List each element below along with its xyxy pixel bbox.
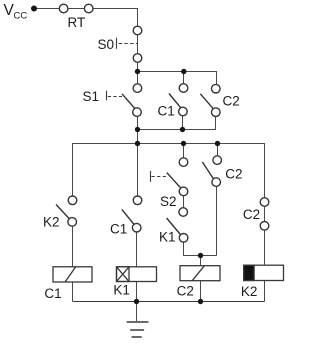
contact C2 mid [213,156,222,165]
contact K2 [68,196,77,205]
ground [127,322,149,337]
contact C1 mid [133,196,142,205]
node D1 junction [135,141,140,146]
wire S2 top stub [183,144,185,158]
node C junction [135,127,140,132]
wire C2 coil to bottom bus [200,281,202,302]
svg-text:C1: C1 [110,222,127,237]
svg-text:C2: C2 [223,93,240,108]
contact RT terminals [59,4,68,13]
node F junction [134,299,139,304]
svg-text:S0: S0 [98,37,115,52]
node B junction [135,69,140,74]
wire ground stub [136,302,138,322]
relay coil C1 [53,267,92,282]
wire C1 bottom stub [182,116,184,130]
node G junction [198,299,203,304]
svg-text:CC: CC [14,11,28,22]
wire S2-K1 link [183,196,185,208]
wire S1 bottom stub [137,116,139,143]
pushbutton S0 terminals [133,26,142,35]
svg-text:C1: C1 [158,104,175,119]
node E junction [198,253,203,258]
node C2j junction [180,127,185,132]
wire bus node C (y=129) [138,116,216,129]
svg-text:K1: K1 [113,283,130,298]
wire S1 top stub [137,72,139,85]
pushbutton S0 actuator [117,38,138,49]
wire C1 top stub [183,72,185,85]
relay coil K2 [244,265,284,280]
wire bus node D (y=143) [73,144,265,198]
svg-text:S2: S2 [160,194,177,209]
wire K1 coil to bottom bus [136,282,138,302]
wire K2 switch to C1 coil [72,226,74,267]
wire C1 switch top stub [137,144,139,197]
svg-text:C2: C2 [243,207,260,222]
svg-text:K2: K2 [43,215,60,230]
pushbutton S2 [179,158,188,167]
wire C2 right to K2 coil [264,230,266,265]
svg-text:K1: K1 [159,230,176,245]
switch S1 actuator [107,91,123,101]
wire bottom bus [73,301,265,303]
wire K2 coil to bottom bus [264,281,266,302]
wire Vcc top rail [36,9,138,27]
relay coil C2 [180,266,220,281]
relay coil K1 [117,267,157,282]
wire C1 switch to K1 coil [136,232,138,267]
wire K1 bottom to node E [184,242,217,256]
node B2 junction [181,69,186,74]
contact K1 [179,208,188,217]
contact C2 right (closed) [260,198,269,207]
pushbutton S2 actuator [151,171,168,182]
wire bus node B (y=72) [138,72,217,85]
svg-text:RT: RT [68,15,86,30]
svg-text:S1: S1 [83,89,100,104]
wire C2 mid top stub [217,144,219,156]
svg-text:K2: K2 [241,284,258,299]
node D3 junction [215,141,220,146]
wire C1 coil to bottom bus [72,282,74,302]
wire C2 right contact line [264,198,266,230]
node D2 junction [181,141,186,146]
svg-text:C2: C2 [177,284,194,299]
node Vcc terminal [31,6,37,12]
svg-text:C1: C1 [44,286,61,301]
relay coil K2 filled block [244,265,254,280]
switch S1 [133,84,142,93]
svg-text:C2: C2 [225,166,242,181]
contact C1 row1 [179,84,188,93]
wire S0 contact line [137,27,139,70]
contact C2 row1 [212,84,221,93]
wire node E to C2 coil [200,256,202,266]
wire C2 mid bottom to node E [216,186,218,255]
